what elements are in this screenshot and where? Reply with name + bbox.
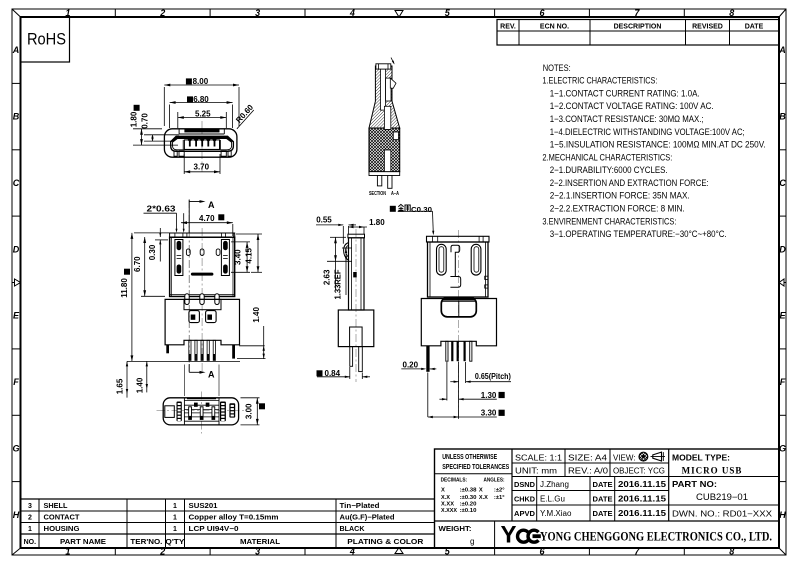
third angle projection symbol <box>639 452 665 461</box>
svg-text::±1°: :±1° <box>494 495 505 501</box>
svg-text:B: B <box>779 112 786 122</box>
RoHS label box <box>21 17 70 62</box>
pin tip datum line <box>127 360 240 362</box>
zone tick marks top <box>114 9 116 17</box>
approval rows <box>514 479 666 518</box>
svg-text::±0.38: :±0.38 <box>460 487 478 493</box>
svg-text:CHKD: CHKD <box>514 495 536 504</box>
svg-text:SECTION: SECTION <box>369 191 386 197</box>
profile view lower block <box>338 310 374 347</box>
svg-text:5.25: 5.25 <box>195 110 211 119</box>
profile view body mark <box>353 272 357 277</box>
svg-text:1−4.DIELECTRIC WITHSTANDING: 1−4.DIELECTRIC WITHSTANDING VOLTAGE:100V… <box>550 127 745 137</box>
svg-text:X.XXX: X.XXX <box>441 508 457 514</box>
svg-text:H: H <box>13 510 20 520</box>
svg-text:1−3.CONTACT RESISTANCE: 30MΩ: 1−3.CONTACT RESISTANCE: 30MΩ MAX.; <box>550 114 704 124</box>
profile view top cap <box>348 234 365 238</box>
dim 1.40 right <box>237 307 266 359</box>
section A-A base plate <box>369 172 400 176</box>
svg-text:6.80: 6.80 <box>193 95 209 104</box>
svg-text:1: 1 <box>65 547 70 557</box>
center arrow right <box>784 282 786 284</box>
section A-A top cap <box>376 64 391 69</box>
svg-text:REVISED: REVISED <box>692 24 723 31</box>
svg-text:E: E <box>13 311 20 321</box>
svg-text:J.Zhang: J.Zhang <box>540 480 569 489</box>
bottom view center rails <box>184 405 219 417</box>
svg-text:E.L.Gu: E.L.Gu <box>540 495 565 504</box>
weight cell <box>439 524 475 546</box>
svg-text:1−2.CONTACT VOLTAGE RATING:: 1−2.CONTACT VOLTAGE RATING: 100V AC. <box>550 101 714 111</box>
svg-text:SCALE: 1:1: SCALE: 1:1 <box>515 454 563 463</box>
svg-text:Copper alloy T=0.15mm: Copper alloy T=0.15mm <box>189 515 279 522</box>
side view right slot <box>471 244 481 275</box>
svg-text:2: 2 <box>28 515 32 522</box>
svg-text:C0.30: C0.30 <box>411 205 432 214</box>
front view housing holes <box>189 311 216 323</box>
svg-text:UNLESS OTHERWISE: UNLESS OTHERWISE <box>442 454 497 461</box>
svg-text:MODEL TYPE:: MODEL TYPE: <box>672 453 730 463</box>
front view centerline <box>201 228 203 371</box>
svg-text:3.00: 3.00 <box>245 403 254 419</box>
svg-text:SHELL: SHELL <box>44 503 69 510</box>
dim 4.15 <box>236 234 262 272</box>
svg-text:8.00: 8.00 <box>193 77 209 86</box>
svg-text:A: A <box>778 45 786 55</box>
svg-text:1−1.CONTACT CURRENT RATING:: 1−1.CONTACT CURRENT RATING: 1.0A. <box>550 88 700 98</box>
front view shell body <box>170 237 235 296</box>
revision table <box>497 20 779 46</box>
dim 3.40 <box>231 242 250 272</box>
svg-text:PART NAME: PART NAME <box>60 539 106 546</box>
section arrow A top <box>189 200 215 233</box>
svg-text:0.30: 0.30 <box>148 244 157 260</box>
svg-text::±2°: :±2° <box>494 487 505 493</box>
side view pins <box>446 341 472 361</box>
zone tick marks bottom <box>114 548 116 555</box>
parts table header row <box>24 539 424 546</box>
svg-text:CONTACT: CONTACT <box>44 515 81 522</box>
svg-text:4.70: 4.70 <box>199 214 215 223</box>
svg-text:NOTES:: NOTES: <box>543 63 571 73</box>
front view section line A <box>188 200 190 371</box>
svg-text:SIZE: A4: SIZE: A4 <box>568 454 608 463</box>
svg-text:0.20: 0.20 <box>403 360 419 369</box>
section A-A top leader arrow <box>391 58 395 65</box>
face view contact tongue <box>183 140 220 150</box>
zone numbers bottom <box>65 547 734 557</box>
profile view body <box>349 238 365 310</box>
dim 0.70 vertical <box>141 113 180 141</box>
svg-text:OBJECT: YCG: OBJECT: YCG <box>613 467 665 476</box>
svg-text:PART NO:: PART NO: <box>672 479 717 489</box>
svg-text:DESCRIPTION: DESCRIPTION <box>614 24 662 31</box>
svg-text:0.65(Pitch): 0.65(Pitch) <box>475 372 511 381</box>
side view centerline <box>458 230 460 420</box>
frame corner diagonals <box>12 9 21 17</box>
front view horizontal slot <box>191 273 214 276</box>
svg-text:G: G <box>12 444 19 454</box>
dim 11.80 <box>120 233 176 362</box>
svg-text:X.X: X.X <box>441 495 450 501</box>
front view left crimp column <box>175 240 183 276</box>
svg-text:A: A <box>208 200 215 210</box>
front view housing <box>165 299 239 344</box>
svg-text:1.40: 1.40 <box>252 307 261 323</box>
svg-text:4: 4 <box>349 8 355 18</box>
dim 1.40 left <box>135 361 148 393</box>
zone letters left <box>12 45 20 520</box>
svg-text:SUS201: SUS201 <box>189 503 218 510</box>
svg-text:3: 3 <box>28 503 32 510</box>
svg-text:Y.M.Xiao: Y.M.Xiao <box>540 509 572 518</box>
svg-text:1.80: 1.80 <box>130 111 139 127</box>
title block grid <box>435 449 780 548</box>
section arrow A bottom <box>189 364 215 380</box>
svg-text:1.80: 1.80 <box>369 218 385 227</box>
bottom view left tab <box>165 406 175 418</box>
svg-text:Tin−Plated: Tin−Plated <box>340 503 380 510</box>
svg-text:1.40: 1.40 <box>135 377 144 393</box>
svg-text:VIEW:: VIEW: <box>613 454 636 463</box>
svg-text:11.80: 11.80 <box>120 278 129 298</box>
svg-text:BLACK: BLACK <box>340 526 365 533</box>
dim 6.70 <box>133 237 165 296</box>
svg-text:DATE: DATE <box>593 495 613 504</box>
svg-text:0.70: 0.70 <box>141 113 150 129</box>
svg-text:YONG CHENGGONG ELECTRONICS: YONG CHENGGONG ELECTRONICS CO., LTD. <box>540 530 772 544</box>
svg-text:SPECIFIED TOLERANCES: SPECIFIED TOLERANCES <box>442 464 509 471</box>
dim 3.70 <box>184 154 220 174</box>
svg-text:1.65: 1.65 <box>116 378 125 394</box>
dim 3.00 <box>241 398 266 425</box>
parts row 3 shell <box>28 503 379 510</box>
svg-text:X: X <box>441 487 445 493</box>
bottom view body outline <box>163 398 238 425</box>
front view side legs <box>166 345 235 359</box>
scale size view row <box>515 454 665 476</box>
svg-text:D: D <box>13 244 20 254</box>
side view left slot <box>437 244 447 275</box>
bottom view contact pads <box>188 403 215 420</box>
dim 4.70 <box>181 214 233 236</box>
svg-text:2016.11.15: 2016.11.15 <box>618 508 666 518</box>
svg-text:CUB219−01: CUB219−01 <box>696 492 748 502</box>
face view centerline <box>201 121 203 172</box>
svg-text:1.33REF: 1.33REF <box>334 269 343 299</box>
svg-text:B: B <box>13 112 20 122</box>
front view right crimp column <box>221 240 229 276</box>
section A-A white channel <box>381 69 399 172</box>
zone tick marks right <box>779 82 786 84</box>
svg-text:3.ENVIRENMENT CHARACTERISTICS: 3.ENVIRENMENT CHARACTERISTICS: <box>542 216 676 226</box>
svg-text:1: 1 <box>173 515 177 522</box>
svg-text:1−5.INSULATION RESISTANCE: 1: 1−5.INSULATION RESISTANCE: 100MΩ MIN.AT … <box>550 140 766 150</box>
svg-text:LCP UI94V−0: LCP UI94V−0 <box>189 526 239 533</box>
dim 2*0.63 <box>144 205 185 233</box>
svg-text:X: X <box>479 487 483 493</box>
svg-text::±0.30: :±0.30 <box>460 495 477 501</box>
dim 0.20 <box>401 360 436 370</box>
svg-text:2.63: 2.63 <box>322 269 331 285</box>
svg-text:C: C <box>13 178 20 188</box>
svg-text:REV.: REV. <box>500 24 516 31</box>
svg-text:2.MECHANICAL CHARACTERISTICS:: 2.MECHANICAL CHARACTERISTICS: <box>542 152 672 162</box>
face view bottom notches <box>174 151 231 156</box>
parts row 2 contact <box>28 515 394 522</box>
dim 1.80 profile <box>349 218 386 234</box>
zone letters right <box>778 45 786 520</box>
svg-text:2: 2 <box>159 547 165 557</box>
side view housing <box>421 299 496 346</box>
notes text block <box>542 63 765 239</box>
svg-text:APVD: APVD <box>514 509 536 518</box>
dim 0.55 <box>316 216 356 244</box>
side view center tongue <box>450 245 460 287</box>
dim 5.25 <box>178 110 227 128</box>
svg-text:4: 4 <box>349 547 355 557</box>
bottom view centerline horizontal <box>157 409 247 411</box>
parts table grid <box>21 499 435 548</box>
svg-text:MICRO USB: MICRO USB <box>682 466 743 476</box>
center arrow top <box>395 11 403 18</box>
svg-text:A: A <box>12 45 20 55</box>
svg-text:E: E <box>779 311 786 321</box>
dim 0.30 <box>148 228 168 262</box>
bottom view right ladder <box>220 402 226 422</box>
svg-text:4.15: 4.15 <box>244 247 253 263</box>
svg-text:X.XX: X.XX <box>441 502 454 508</box>
svg-text:1.ELECTRIC CHARACTERISTICS:: 1.ELECTRIC CHARACTERISTICS: <box>542 76 657 86</box>
svg-text:3.30: 3.30 <box>481 408 497 417</box>
svg-text:H: H <box>779 510 786 520</box>
side view top plate <box>427 236 490 242</box>
dim 0.84 <box>317 367 371 379</box>
YCG logo <box>501 522 541 549</box>
svg-text:g: g <box>470 537 474 546</box>
face view top bar <box>179 129 224 134</box>
dim 1.65 <box>116 361 129 397</box>
face view D-shaped opening <box>171 136 234 151</box>
dim 2.63 <box>322 237 352 290</box>
svg-text:1: 1 <box>173 526 177 533</box>
projection lines front to bottom view <box>184 365 219 397</box>
dim 8.00 <box>164 77 239 126</box>
svg-text:8: 8 <box>729 8 734 18</box>
svg-text:DATE: DATE <box>745 24 764 31</box>
side view boss <box>441 298 476 317</box>
svg-text:RoHS: RoHS <box>27 30 66 49</box>
dim 1.33REF <box>334 248 352 300</box>
face view shell outline <box>164 129 237 157</box>
bottom view outer right ladder <box>229 403 235 417</box>
profile view centerline <box>355 229 357 382</box>
svg-text:A−A: A−A <box>391 191 399 197</box>
center arrow left <box>12 282 15 284</box>
svg-text:F: F <box>780 377 786 387</box>
svg-text:DECIMALS:: DECIMALS: <box>441 477 468 483</box>
zone numbers top <box>65 8 734 18</box>
svg-text:A: A <box>208 370 215 380</box>
svg-text:DWN. NO.: RD01−XXX: DWN. NO.: RD01−XXX <box>672 510 773 519</box>
svg-text:2−2.INSERTION AND EXTRACTION: 2−2.INSERTION AND EXTRACTION FORCE: <box>550 178 709 188</box>
dim 1.30 <box>439 362 504 401</box>
bottom view left ladder <box>177 402 182 422</box>
svg-text:DSND: DSND <box>514 480 536 489</box>
svg-text:Au(G.F)−Plated: Au(G.F)−Plated <box>340 515 395 522</box>
svg-text:1: 1 <box>173 503 177 510</box>
svg-text:D: D <box>779 244 786 254</box>
dim 1.80 vertical <box>130 105 178 145</box>
section A-A legs <box>377 176 392 189</box>
svg-text:2−2.2.EXTRACTION FORCE: 8 M: 2−2.2.EXTRACTION FORCE: 8 MIN. <box>550 203 685 213</box>
svg-text:2016.11.15: 2016.11.15 <box>618 479 666 489</box>
svg-text::±0.20: :±0.20 <box>460 502 477 508</box>
zone tick marks left <box>12 82 21 84</box>
bottom view centerline vertical <box>200 392 202 434</box>
note C0.30 label <box>390 204 435 235</box>
section A-A label <box>369 191 399 197</box>
dim 6.80 <box>170 95 233 128</box>
svg-text:UNIT: mm: UNIT: mm <box>515 467 557 476</box>
svg-text:REV.: A/0: REV.: A/0 <box>568 467 609 476</box>
svg-text:0.84: 0.84 <box>325 369 341 378</box>
side view left leg pin <box>426 346 429 372</box>
svg-text:NO.: NO. <box>24 539 37 546</box>
side view seam marks <box>485 276 488 288</box>
svg-text:1.30: 1.30 <box>481 391 497 400</box>
svg-text:1: 1 <box>28 526 32 533</box>
svg-text:3: 3 <box>255 8 260 18</box>
svg-text::±0.10: :±0.10 <box>460 508 477 514</box>
svg-text:DATE: DATE <box>593 509 613 518</box>
svg-text:Q'TY: Q'TY <box>165 539 184 546</box>
svg-text:3.70: 3.70 <box>194 163 210 172</box>
svg-text:G: G <box>779 444 786 454</box>
svg-text:2−2.1.INSERTION FORCE: 35N: 2−2.1.INSERTION FORCE: 35N MAX. <box>550 191 690 201</box>
front view shell holes <box>186 249 220 256</box>
side view shell body <box>428 242 489 297</box>
svg-text:C: C <box>779 178 786 188</box>
svg-text:3−1.OPERATING TEMPERATURE:−30: 3−1.OPERATING TEMPERATURE:−30°C~+80°C. <box>550 229 727 239</box>
svg-text:ECN NO.: ECN NO. <box>540 24 569 31</box>
svg-text:PLATING & COLOR: PLATING & COLOR <box>347 539 423 546</box>
svg-text:MATERIAL: MATERIAL <box>240 539 281 546</box>
svg-text:DATE: DATE <box>593 480 613 489</box>
svg-text:2016.11.15: 2016.11.15 <box>618 494 666 504</box>
tolerance box text <box>441 454 510 514</box>
section A-A hatched body <box>369 66 400 172</box>
svg-text:HOUSING: HOUSING <box>44 526 81 533</box>
dim 0.65 pitch <box>450 362 511 419</box>
svg-text:WEIGHT:: WEIGHT: <box>439 524 472 533</box>
parts row 1 housing <box>28 526 364 533</box>
front view solder tabs <box>185 294 219 305</box>
svg-text:TER'NO.: TER'NO. <box>130 539 162 546</box>
center arrow bottom <box>395 548 403 554</box>
svg-text:6.70: 6.70 <box>133 256 142 272</box>
svg-text:2*0.63: 2*0.63 <box>147 205 177 214</box>
svg-text:2: 2 <box>159 8 165 18</box>
svg-text:Y: Y <box>501 522 517 549</box>
front view top plate <box>170 233 235 237</box>
profile view pins <box>350 347 363 372</box>
profile view latch bump <box>344 243 349 261</box>
svg-text:0.55: 0.55 <box>316 216 332 225</box>
face view contacts <box>188 137 217 146</box>
model type cell <box>672 453 742 476</box>
svg-text:2−1.DURABILITY:6000 CYCLES.: 2−1.DURABILITY:6000 CYCLES. <box>550 165 668 175</box>
svg-text:ANGLES:: ANGLES: <box>484 477 505 483</box>
bottom view shell lines <box>184 398 219 425</box>
svg-text:3.40: 3.40 <box>234 249 243 265</box>
front view pins <box>189 340 216 360</box>
svg-text:X.X: X.X <box>479 495 488 501</box>
dim 3.30 <box>428 373 505 419</box>
svg-text:F: F <box>13 377 19 387</box>
dim R0.60 leader <box>234 102 255 128</box>
svg-text:3: 3 <box>255 547 260 557</box>
part no cell <box>672 479 773 519</box>
